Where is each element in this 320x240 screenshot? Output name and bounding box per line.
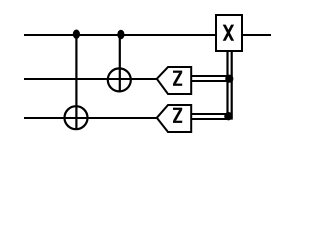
control dot 2 (on q0, controls CNOT to q1) (117, 30, 124, 39)
wire q0 (top qubit wire, left segment) (24, 34, 217, 36)
gate Z tag on q1 (classically controlled Z) (157, 67, 191, 94)
wire q1 (middle qubit wire) (24, 78, 157, 80)
label X (223, 25, 234, 41)
wire q0 (top qubit wire, right segment) (242, 34, 272, 36)
gate Z tag on q2 (classically controlled Z) (157, 105, 191, 132)
classical double wire horizontal from Z tag on q1 (192, 75, 232, 77)
classical double wire horizontal from Z tag on q2 (192, 113, 230, 115)
wire control line from dot1 down to target on q2 (75, 33, 77, 129)
control dot 1 (on q0, controls CNOT to q2) (73, 30, 80, 39)
CNOT target on q1 (circle-plus) (108, 68, 131, 91)
label Z (bottom) (173, 108, 182, 123)
wire q2 (bottom qubit wire) (24, 117, 157, 119)
CNOT target on q2 (circle-plus) (65, 106, 88, 129)
junction dot on classical wire (bottom) (224, 112, 232, 120)
label Z (middle) (173, 71, 182, 86)
junction dot on classical wire (middle) (225, 75, 233, 83)
classical double wire vertical (from X gate down) (226, 51, 228, 116)
wire control line from dot2 down to target on q1 (119, 33, 121, 92)
gate X box U1 on q0 (216, 15, 242, 51)
